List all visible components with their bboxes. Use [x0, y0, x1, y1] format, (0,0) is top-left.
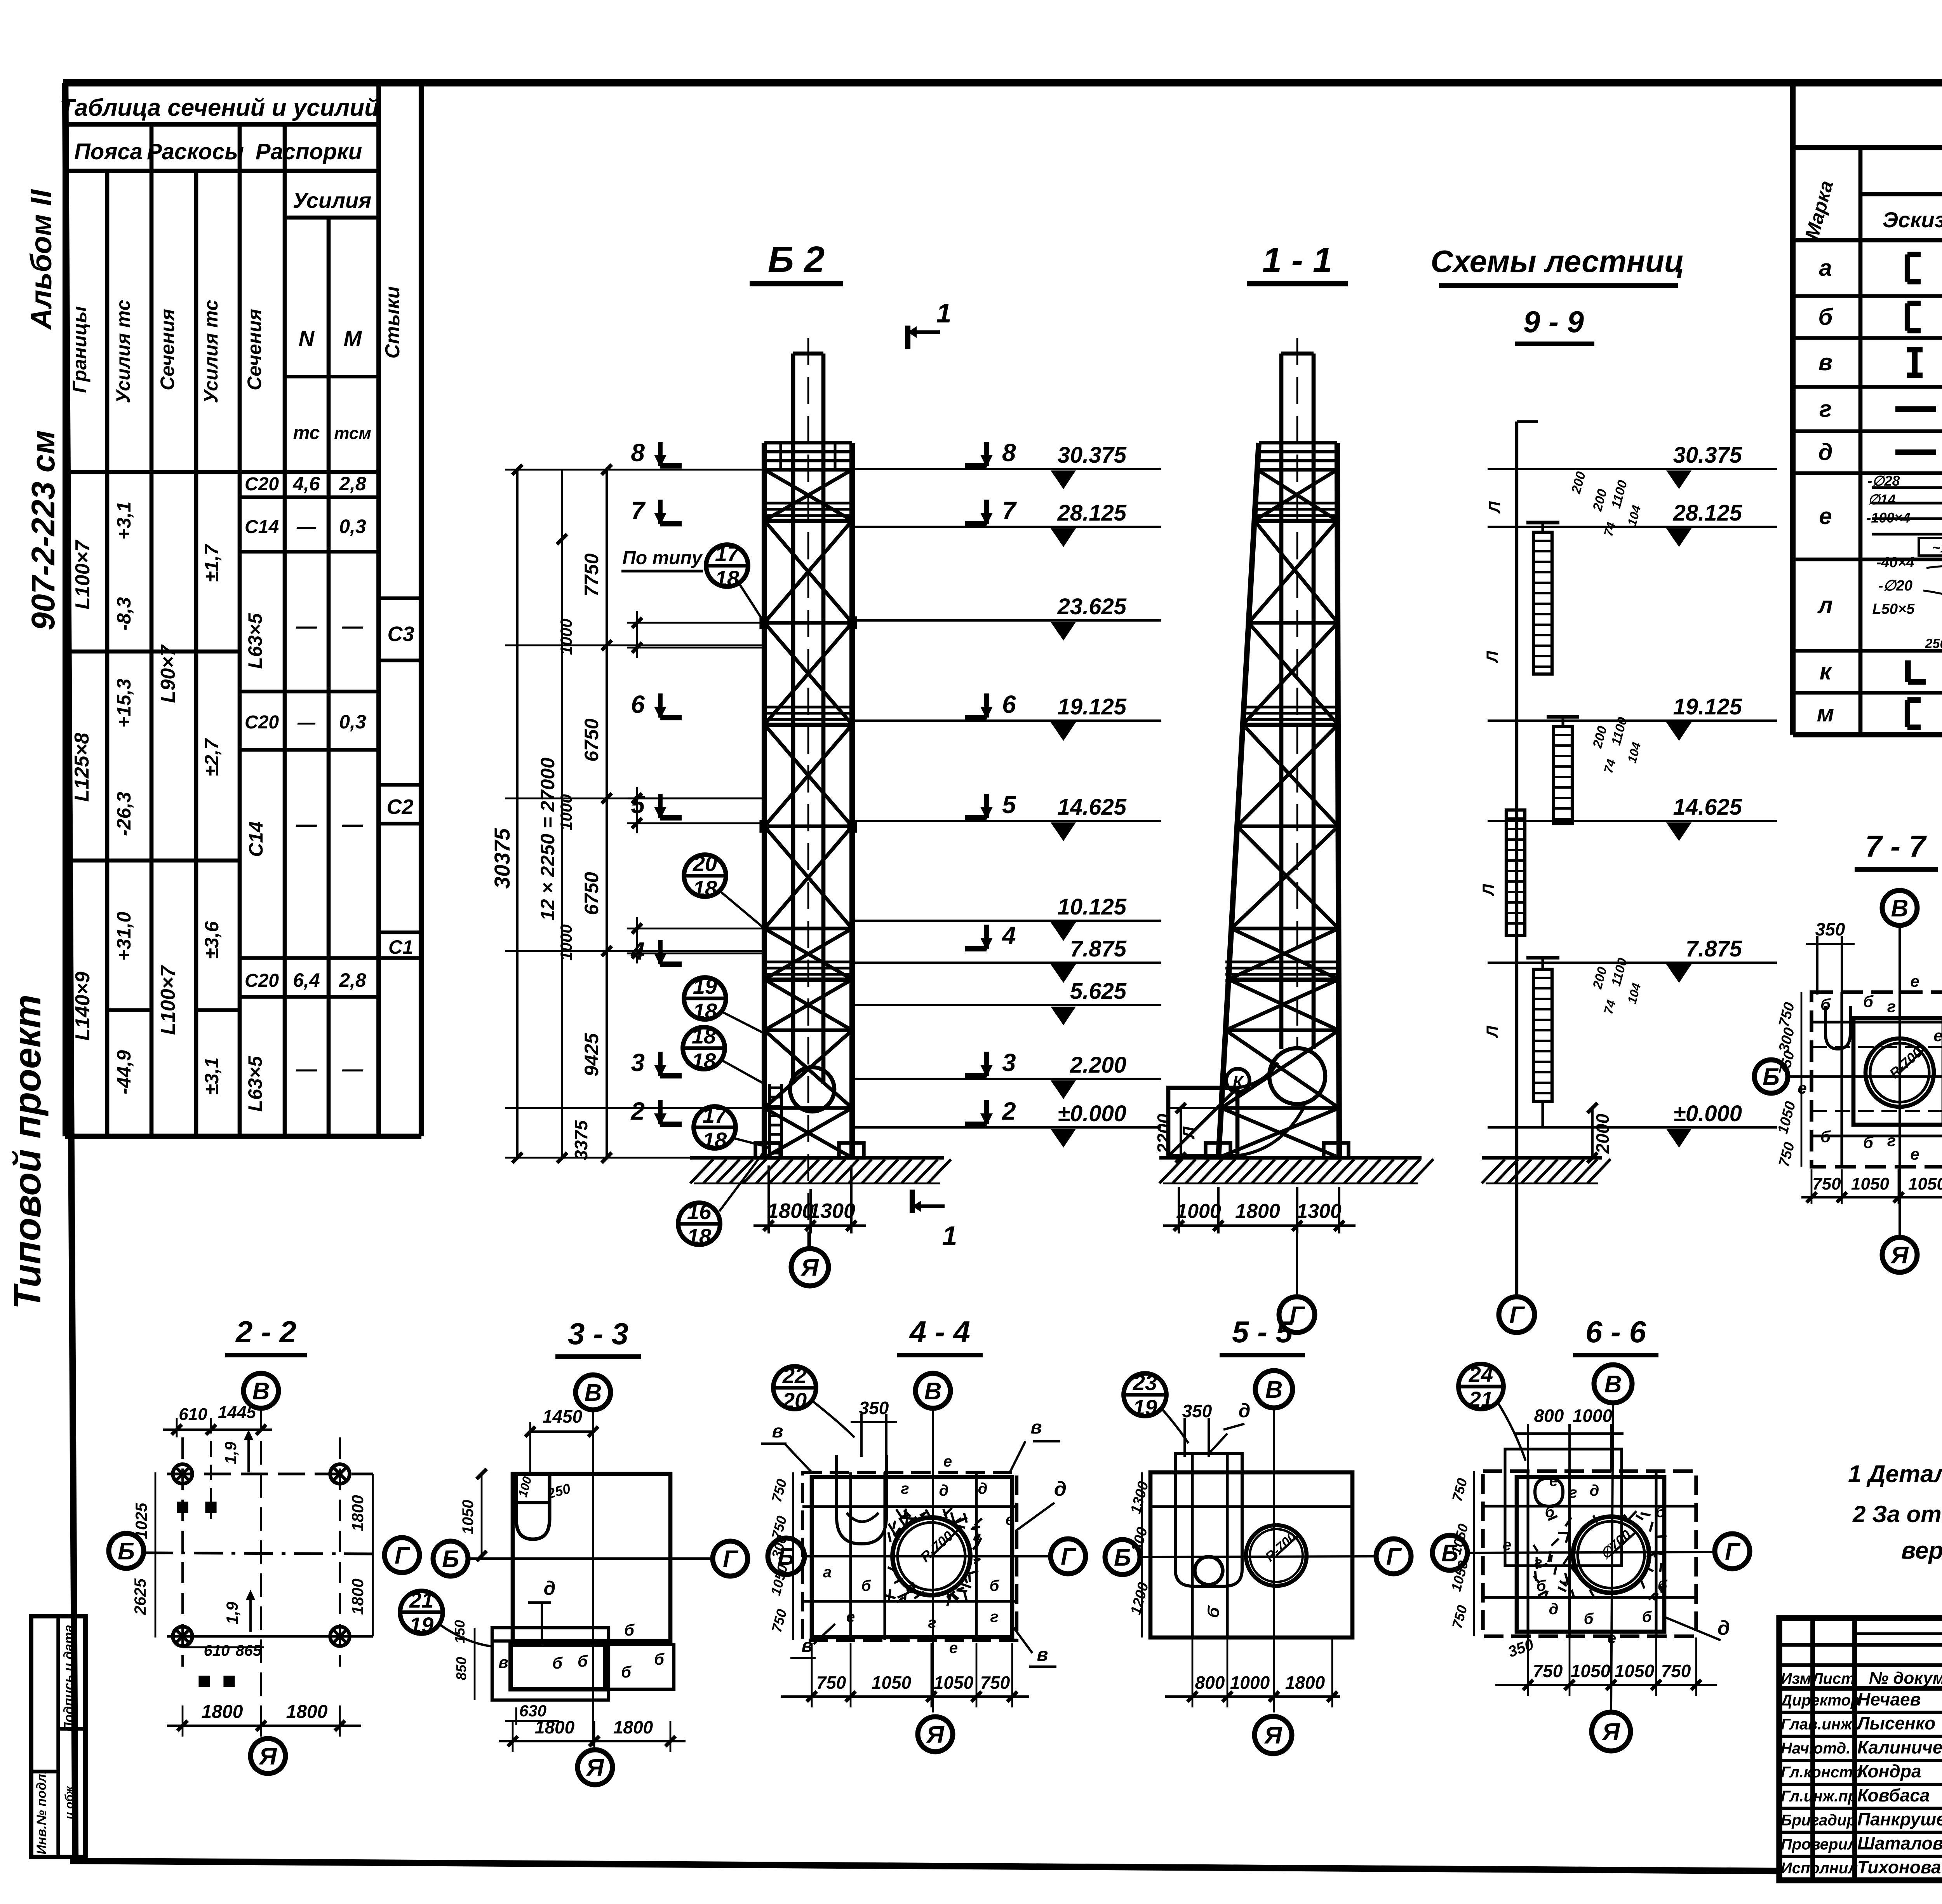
svg-text:е: е: [1503, 1536, 1511, 1554]
svg-text:Б 2: Б 2: [768, 239, 825, 280]
svg-text:1050: 1050: [934, 1672, 974, 1693]
svg-text:8: 8: [1002, 439, 1016, 467]
title block (stamp): [1779, 1618, 1942, 1880]
svg-text:350: 350: [1815, 919, 1845, 939]
svg-text:М: М: [344, 326, 362, 350]
svg-text:г: г: [1569, 1484, 1577, 1501]
svg-text:Бригадир: Бригадир: [1781, 1812, 1856, 1829]
svg-text:1800: 1800: [348, 1495, 367, 1531]
svg-text:Я: Я: [1601, 1719, 1620, 1745]
axis circle Г under 9-9: [1499, 1297, 1535, 1333]
svg-text:В: В: [252, 1378, 270, 1405]
svg-text:1050: 1050: [1908, 1174, 1942, 1193]
svg-text:д: д: [1054, 1478, 1067, 1500]
svg-text:6: 6: [631, 690, 645, 718]
svg-text:Раскосы: Раскосы: [147, 139, 244, 164]
svg-text:е: е: [1549, 1472, 1558, 1489]
section 3-3: [433, 1317, 748, 1785]
svg-text:1050: 1050: [872, 1672, 912, 1693]
tower B2 lattice: [764, 443, 852, 1158]
svg-text:∅14: ∅14: [1868, 491, 1895, 507]
svg-text:1300: 1300: [1296, 1200, 1342, 1223]
svg-text:7.875: 7.875: [1686, 936, 1742, 962]
svg-text:1000: 1000: [1230, 1672, 1270, 1693]
svg-text:23.625: 23.625: [1057, 594, 1127, 619]
svg-text:—: —: [342, 813, 364, 836]
svg-text:Типовой проект: Типовой проект: [6, 995, 49, 1309]
svg-text:4: 4: [630, 937, 645, 965]
svg-text:750: 750: [1812, 1174, 1841, 1193]
svg-text:28.125: 28.125: [1673, 500, 1742, 526]
tower 1-1 lattice: [1218, 443, 1339, 1158]
svg-text:Тихонова: Тихонова: [1857, 1857, 1941, 1877]
svg-text:7: 7: [631, 496, 646, 524]
svg-text:5 - 5: 5 - 5: [1232, 1315, 1293, 1349]
svg-text:Я: Я: [1890, 1242, 1909, 1269]
svg-text:б: б: [624, 1621, 635, 1639]
svg-text:и обж: и обж: [63, 1785, 76, 1819]
svg-text:10.125: 10.125: [1058, 894, 1127, 920]
svg-text:б: б: [1642, 1608, 1652, 1625]
svg-text:Я: Я: [1263, 1722, 1282, 1749]
svg-text:Б: Б: [1114, 1544, 1131, 1571]
svg-text:18: 18: [687, 1224, 712, 1249]
svg-text:21: 21: [1469, 1387, 1493, 1411]
axis circle Г under 1-1: [1279, 1226, 1315, 1333]
svg-text:1800: 1800: [348, 1578, 367, 1615]
flue bend 1-1: [1237, 1048, 1325, 1156]
section 5-5: [1105, 1315, 1411, 1754]
svg-text:Альбом II: Альбом II: [25, 189, 58, 330]
svg-text:Я: Я: [800, 1254, 819, 1281]
svg-text:В: В: [1265, 1376, 1283, 1403]
svg-text:14.625: 14.625: [1673, 794, 1742, 820]
svg-text:д: д: [906, 1579, 916, 1596]
svg-text:Усилия: Усилия: [293, 188, 372, 213]
svg-text:7 - 7: 7 - 7: [1865, 829, 1927, 863]
svg-text:±3,6: ±3,6: [201, 921, 223, 959]
svg-text:г: г: [1887, 997, 1896, 1016]
svg-text:1445: 1445: [218, 1403, 256, 1422]
svg-text:С1: С1: [388, 936, 413, 958]
svg-text:5: 5: [1002, 791, 1016, 819]
section cut marks right of B2: [965, 439, 1017, 1126]
svg-text:е: е: [846, 1608, 855, 1625]
svg-text:к: к: [1820, 658, 1832, 685]
svg-text:19.125: 19.125: [1058, 694, 1127, 719]
svg-text:1800: 1800: [535, 1717, 575, 1737]
svg-text:б: б: [1820, 1127, 1831, 1146]
svg-text:е: е: [1910, 972, 1919, 990]
svg-text:2: 2: [630, 1097, 645, 1125]
svg-text:-100×4: -100×4: [1866, 510, 1910, 526]
svg-text:800: 800: [1195, 1672, 1225, 1693]
svg-text:24: 24: [1469, 1362, 1493, 1387]
svg-text:Ковбаса: Ковбаса: [1857, 1785, 1930, 1805]
title 1-1: [1247, 241, 1348, 284]
table: Таблица элементов: [1793, 83, 1942, 735]
svg-text:Директор: Директор: [1780, 1692, 1860, 1709]
svg-text:850: 850: [453, 1657, 469, 1680]
svg-text:±0.000: ±0.000: [1058, 1101, 1126, 1126]
svg-text:3: 3: [631, 1049, 645, 1077]
svg-text:б: б: [1584, 1610, 1594, 1627]
table: Таблица сечений и усилий: [60, 83, 421, 1136]
callouts B2: [621, 541, 768, 1249]
svg-text:Г: Г: [1061, 1543, 1077, 1570]
svg-text:750: 750: [1533, 1661, 1563, 1681]
svg-text:Нечаев: Нечаев: [1857, 1689, 1921, 1709]
svg-text:6,4: 6,4: [293, 969, 320, 991]
svg-text:Калиничев: Калиничев: [1857, 1737, 1942, 1757]
svg-text:Распорки: Распорки: [256, 139, 362, 164]
svg-text:—: —: [296, 615, 317, 638]
svg-text:Гл.констр: Гл.констр: [1781, 1764, 1862, 1781]
svg-text:16: 16: [687, 1199, 712, 1224]
svg-text:2200: 2200: [1154, 1113, 1174, 1154]
title Схемы лестниц: [1430, 244, 1684, 344]
svg-text:4 - 4: 4 - 4: [909, 1315, 970, 1349]
svg-text:N: N: [299, 326, 315, 350]
svg-text:б: б: [1658, 1577, 1668, 1594]
svg-text:19: 19: [693, 974, 717, 998]
svg-text:1800: 1800: [202, 1702, 243, 1722]
svg-text:Г: Г: [1386, 1543, 1402, 1570]
svg-text:L140×9: L140×9: [71, 972, 94, 1041]
svg-text:д: д: [544, 1577, 556, 1599]
bottom-left stamp column: [31, 1616, 85, 1857]
svg-text:—: —: [296, 1057, 317, 1081]
svg-text:Я: Я: [926, 1721, 945, 1748]
section 2-2: [109, 1315, 419, 1773]
svg-text:Г: Г: [1509, 1302, 1525, 1329]
svg-text:0,3: 0,3: [339, 516, 366, 537]
svg-text:±1,7: ±1,7: [201, 544, 223, 582]
svg-text:17: 17: [703, 1103, 728, 1127]
svg-text:19.125: 19.125: [1673, 694, 1742, 719]
svg-text:б: б: [1545, 1503, 1555, 1521]
svg-text:865: 865: [236, 1642, 262, 1659]
svg-text:Стыки: Стыки: [381, 286, 404, 359]
svg-text:д: д: [1239, 1400, 1251, 1421]
svg-text:В: В: [924, 1378, 942, 1405]
elevation marks right of B2: [852, 442, 1161, 1148]
svg-text:д: д: [978, 1480, 988, 1497]
svg-text:7: 7: [1002, 496, 1017, 524]
svg-text:е: е: [949, 1639, 958, 1657]
svg-text:е: е: [1819, 503, 1832, 529]
svg-text:19: 19: [1133, 1395, 1157, 1420]
svg-text:Л: Л: [1483, 1025, 1501, 1038]
svg-text:Б: Б: [118, 1538, 135, 1565]
svg-text:2 - 2: 2 - 2: [235, 1315, 296, 1349]
svg-text:Усилия тс: Усилия тс: [200, 300, 222, 404]
svg-text:д: д: [1590, 1482, 1599, 1499]
svg-text:С14: С14: [245, 517, 279, 537]
svg-text:7750: 7750: [581, 553, 602, 596]
B2 foundation and ground: [690, 1143, 951, 1183]
chimney mast in 1-1: [1281, 338, 1314, 1049]
svg-text:L50×5: L50×5: [1872, 601, 1915, 617]
svg-text:б: б: [1818, 304, 1833, 330]
section cut marks left of B2: [630, 439, 682, 1126]
svg-text:20: 20: [693, 851, 717, 876]
section 1 flags near B2: [908, 298, 957, 1251]
svg-text:Исполнил: Исполнил: [1781, 1860, 1858, 1877]
svg-text:б: б: [1863, 1133, 1874, 1151]
svg-text:4: 4: [1001, 922, 1016, 949]
axis circle Я under B2: [791, 1226, 828, 1286]
svg-text:—: —: [296, 516, 317, 537]
svg-text:Лист: Лист: [1811, 1670, 1855, 1687]
svg-text:С20: С20: [245, 970, 279, 991]
svg-text:д: д: [1549, 1601, 1559, 1618]
svg-text:2000: 2000: [1592, 1113, 1613, 1154]
svg-text:30.375: 30.375: [1058, 442, 1127, 468]
svg-text:22: 22: [782, 1363, 807, 1388]
svg-text:750: 750: [980, 1672, 1010, 1693]
svg-text:1000: 1000: [1176, 1200, 1221, 1223]
svg-text:С3: С3: [387, 622, 414, 646]
svg-text:в: в: [772, 1421, 783, 1442]
svg-text:б: б: [1656, 1503, 1666, 1521]
svg-text:Сечения: Сечения: [157, 309, 178, 390]
svg-text:30.375: 30.375: [1673, 442, 1742, 468]
svg-text:в: в: [1031, 1417, 1042, 1438]
svg-text:е: е: [1910, 1145, 1919, 1163]
svg-text:1,9: 1,9: [221, 1441, 240, 1464]
svg-text:2,8: 2,8: [339, 473, 366, 495]
svg-text:л: л: [1817, 592, 1832, 618]
svg-text:5.625: 5.625: [1070, 979, 1127, 1004]
svg-text:2.200: 2.200: [1070, 1052, 1126, 1078]
svg-text:18: 18: [703, 1128, 727, 1152]
svg-text:Л: Л: [1485, 501, 1503, 514]
svg-text:12 × 2250 = 27000: 12 × 2250 = 27000: [537, 758, 559, 921]
svg-text:8: 8: [631, 439, 645, 467]
svg-text:Г: Г: [723, 1546, 739, 1573]
svg-text:1800: 1800: [613, 1717, 653, 1737]
svg-text:3: 3: [1002, 1049, 1016, 1077]
svg-text:14.625: 14.625: [1058, 794, 1127, 820]
svg-text:б: б: [1820, 995, 1831, 1014]
svg-text:б: б: [621, 1663, 632, 1681]
svg-text:23: 23: [1133, 1370, 1157, 1395]
svg-text:20: 20: [782, 1388, 807, 1413]
flue bend circle B2: [790, 1067, 834, 1111]
svg-text:С14: С14: [245, 821, 267, 857]
elevation marks 9-9: [1664, 442, 1777, 1148]
svg-text:250: 250: [1925, 636, 1942, 651]
svg-text:18: 18: [693, 876, 717, 901]
svg-text:д: д: [1718, 1617, 1730, 1639]
svg-text:е: е: [1933, 1026, 1942, 1045]
svg-text:-8,3: -8,3: [113, 597, 135, 631]
svg-text:750: 750: [816, 1672, 846, 1693]
svg-text:Таблица сечений и усилий: Таблица сечений и усилий: [60, 94, 379, 121]
svg-text:350: 350: [859, 1398, 889, 1418]
svg-text:610: 610: [179, 1405, 207, 1424]
1-1 base dimensions 1000 1800 1300: [1163, 1187, 1356, 1233]
svg-text:г: г: [990, 1608, 998, 1625]
svg-text:По типу: По типу: [622, 548, 703, 568]
svg-text:1000: 1000: [557, 924, 575, 960]
section 4-4: [761, 1315, 1086, 1752]
svg-text:~1000: ~1000: [1932, 540, 1942, 556]
svg-text:1300: 1300: [809, 1199, 855, 1223]
title B2: [750, 239, 843, 284]
svg-text:1050: 1050: [459, 1500, 477, 1535]
svg-text:1800: 1800: [286, 1702, 328, 1722]
svg-text:С20: С20: [245, 712, 279, 733]
svg-text:Пояса: Пояса: [74, 139, 143, 164]
svg-text:г: г: [1534, 1554, 1542, 1571]
svg-text:Л: Л: [1479, 883, 1497, 896]
svg-text:6 - 6: 6 - 6: [1585, 1315, 1646, 1349]
B2 1000 offset dims: [557, 611, 764, 963]
svg-text:1000: 1000: [1573, 1406, 1613, 1426]
svg-text:907-2-223 см: 907-2-223 см: [25, 430, 61, 630]
svg-text:Усилия тс: Усилия тс: [112, 300, 134, 404]
notes: Примечания: [1848, 1397, 1942, 1564]
svg-text:1 Детали стыков С1,С2 С3 на ли: 1 Детали стыков С1,С2 С3 на листе 18: [1848, 1461, 1942, 1488]
dim 2200 left of 1-1: [1154, 1103, 1218, 1163]
svg-text:Проверил: Проверил: [1781, 1836, 1857, 1853]
svg-text:в: в: [1037, 1644, 1048, 1665]
svg-text:1025: 1025: [132, 1503, 150, 1539]
1-1 foundation and ground: [1159, 1143, 1433, 1183]
svg-text:Подпись и дата: Подпись и дата: [61, 1625, 76, 1732]
svg-text:-44,9: -44,9: [113, 1050, 135, 1094]
svg-text:д: д: [1818, 439, 1832, 465]
svg-text:а: а: [823, 1564, 832, 1581]
svg-text:С2: С2: [386, 795, 413, 819]
svg-text:L90×7: L90×7: [157, 644, 179, 703]
svg-text:-∅28: -∅28: [1867, 473, 1900, 489]
svg-text:2,8: 2,8: [339, 969, 366, 991]
svg-text:Кондра: Кондра: [1857, 1761, 1921, 1781]
svg-text:-∅20: -∅20: [1878, 578, 1912, 594]
svg-text:6: 6: [1002, 690, 1016, 718]
svg-text:д: д: [939, 1482, 949, 1499]
svg-text:—: —: [342, 1057, 364, 1081]
svg-text:а: а: [1819, 255, 1832, 281]
svg-text:Г: Г: [1725, 1538, 1741, 1565]
svg-text:L100×7: L100×7: [71, 540, 94, 610]
svg-text:1050: 1050: [1851, 1174, 1889, 1193]
svg-text:3375: 3375: [571, 1120, 591, 1160]
svg-text:в: в: [498, 1653, 508, 1671]
svg-text:18: 18: [693, 999, 717, 1023]
svg-text:Схемы лестниц: Схемы лестниц: [1430, 244, 1684, 279]
svg-text:Г: Г: [395, 1542, 411, 1569]
svg-text:1 - 1: 1 - 1: [1262, 241, 1332, 280]
svg-text:0,3: 0,3: [339, 711, 366, 733]
svg-text:С20: С20: [245, 474, 279, 495]
svg-text:—: —: [297, 712, 316, 732]
svg-text:В: В: [1891, 895, 1909, 922]
callout 21-19 between 2-2 and 3-3: [400, 1588, 492, 1646]
svg-text:б: б: [1537, 1577, 1547, 1594]
svg-text:28.125: 28.125: [1057, 500, 1127, 526]
svg-text:Я: Я: [585, 1754, 604, 1781]
svg-text:18: 18: [692, 1049, 716, 1073]
svg-text:2: 2: [1002, 1097, 1016, 1125]
svg-text:30375: 30375: [490, 828, 514, 889]
svg-text:тс: тс: [293, 423, 320, 443]
svg-text:1050: 1050: [1571, 1661, 1611, 1681]
svg-text:L125×8: L125×8: [71, 733, 93, 802]
svg-text:В: В: [1604, 1371, 1622, 1398]
svg-text:1800: 1800: [1285, 1672, 1325, 1693]
svg-text:+3,1: +3,1: [113, 502, 135, 540]
svg-text:±3,1: ±3,1: [201, 1057, 223, 1095]
svg-text:3 - 3: 3 - 3: [568, 1317, 628, 1351]
svg-text:5: 5: [631, 791, 645, 819]
svg-text:L100×7: L100×7: [157, 965, 179, 1035]
svg-text:+15,3: +15,3: [113, 679, 135, 728]
svg-text:Инв.№ подл.: Инв.№ подл.: [34, 1770, 49, 1855]
svg-text:Л: Л: [1483, 650, 1501, 663]
svg-text:е: е: [943, 1453, 952, 1470]
svg-text:1000: 1000: [557, 618, 575, 655]
svg-text:-26,3: -26,3: [113, 792, 135, 836]
B2 left dimension chains: [490, 465, 764, 1163]
svg-text:Гл.инж.пр: Гл.инж.пр: [1781, 1788, 1857, 1805]
svg-text:б: б: [552, 1654, 563, 1672]
section 6-6: [1432, 1315, 1750, 1751]
svg-text:610: 610: [204, 1642, 230, 1659]
svg-text:750: 750: [1661, 1661, 1691, 1681]
svg-text:Нач.отд.: Нач.отд.: [1781, 1740, 1850, 1757]
svg-text:—: —: [342, 615, 364, 638]
B2 base dimension 1800 1300: [753, 1165, 866, 1233]
svg-text:тсм: тсм: [334, 424, 371, 443]
svg-text:Границы: Границы: [69, 306, 90, 393]
svg-text:б: б: [654, 1650, 665, 1668]
svg-text:7.875: 7.875: [1070, 936, 1127, 962]
svg-text:1800: 1800: [767, 1199, 814, 1223]
joint ticks B2: [760, 617, 857, 833]
svg-text:18: 18: [715, 566, 740, 591]
svg-text:Глав.инж.: Глав.инж.: [1781, 1716, 1857, 1733]
svg-text:верха фундамента.: верха фундамента.: [1901, 1537, 1942, 1564]
svg-text:9 - 9: 9 - 9: [1523, 305, 1584, 339]
svg-text:Эскиз: Эскиз: [1883, 207, 1942, 232]
svg-text:К: К: [1232, 1073, 1244, 1092]
svg-text:4,6: 4,6: [292, 473, 320, 495]
svg-text:21: 21: [409, 1588, 433, 1612]
svg-text:Л: Л: [1179, 1126, 1198, 1139]
svg-text:L63×5: L63×5: [244, 613, 266, 669]
svg-text:1: 1: [942, 1221, 957, 1251]
svg-text:1: 1: [936, 298, 952, 328]
svg-text:1450: 1450: [543, 1406, 583, 1427]
svg-text:18: 18: [692, 1024, 716, 1048]
svg-text:17: 17: [715, 541, 740, 566]
flue duct inlet 1-1: [1168, 1088, 1237, 1156]
svg-text:Шаталова: Шаталова: [1857, 1833, 1942, 1853]
svg-text:б: б: [1863, 992, 1874, 1010]
svg-text:м: м: [1817, 700, 1834, 726]
svg-text:±2,7: ±2,7: [201, 738, 223, 776]
svg-text:-40×4: -40×4: [1876, 554, 1914, 571]
svg-text:6750: 6750: [581, 872, 602, 915]
svg-text:е: е: [1798, 1079, 1806, 1097]
svg-text:В: В: [585, 1380, 602, 1406]
svg-text:800: 800: [1534, 1406, 1564, 1426]
svg-text:1050: 1050: [1615, 1661, 1655, 1681]
